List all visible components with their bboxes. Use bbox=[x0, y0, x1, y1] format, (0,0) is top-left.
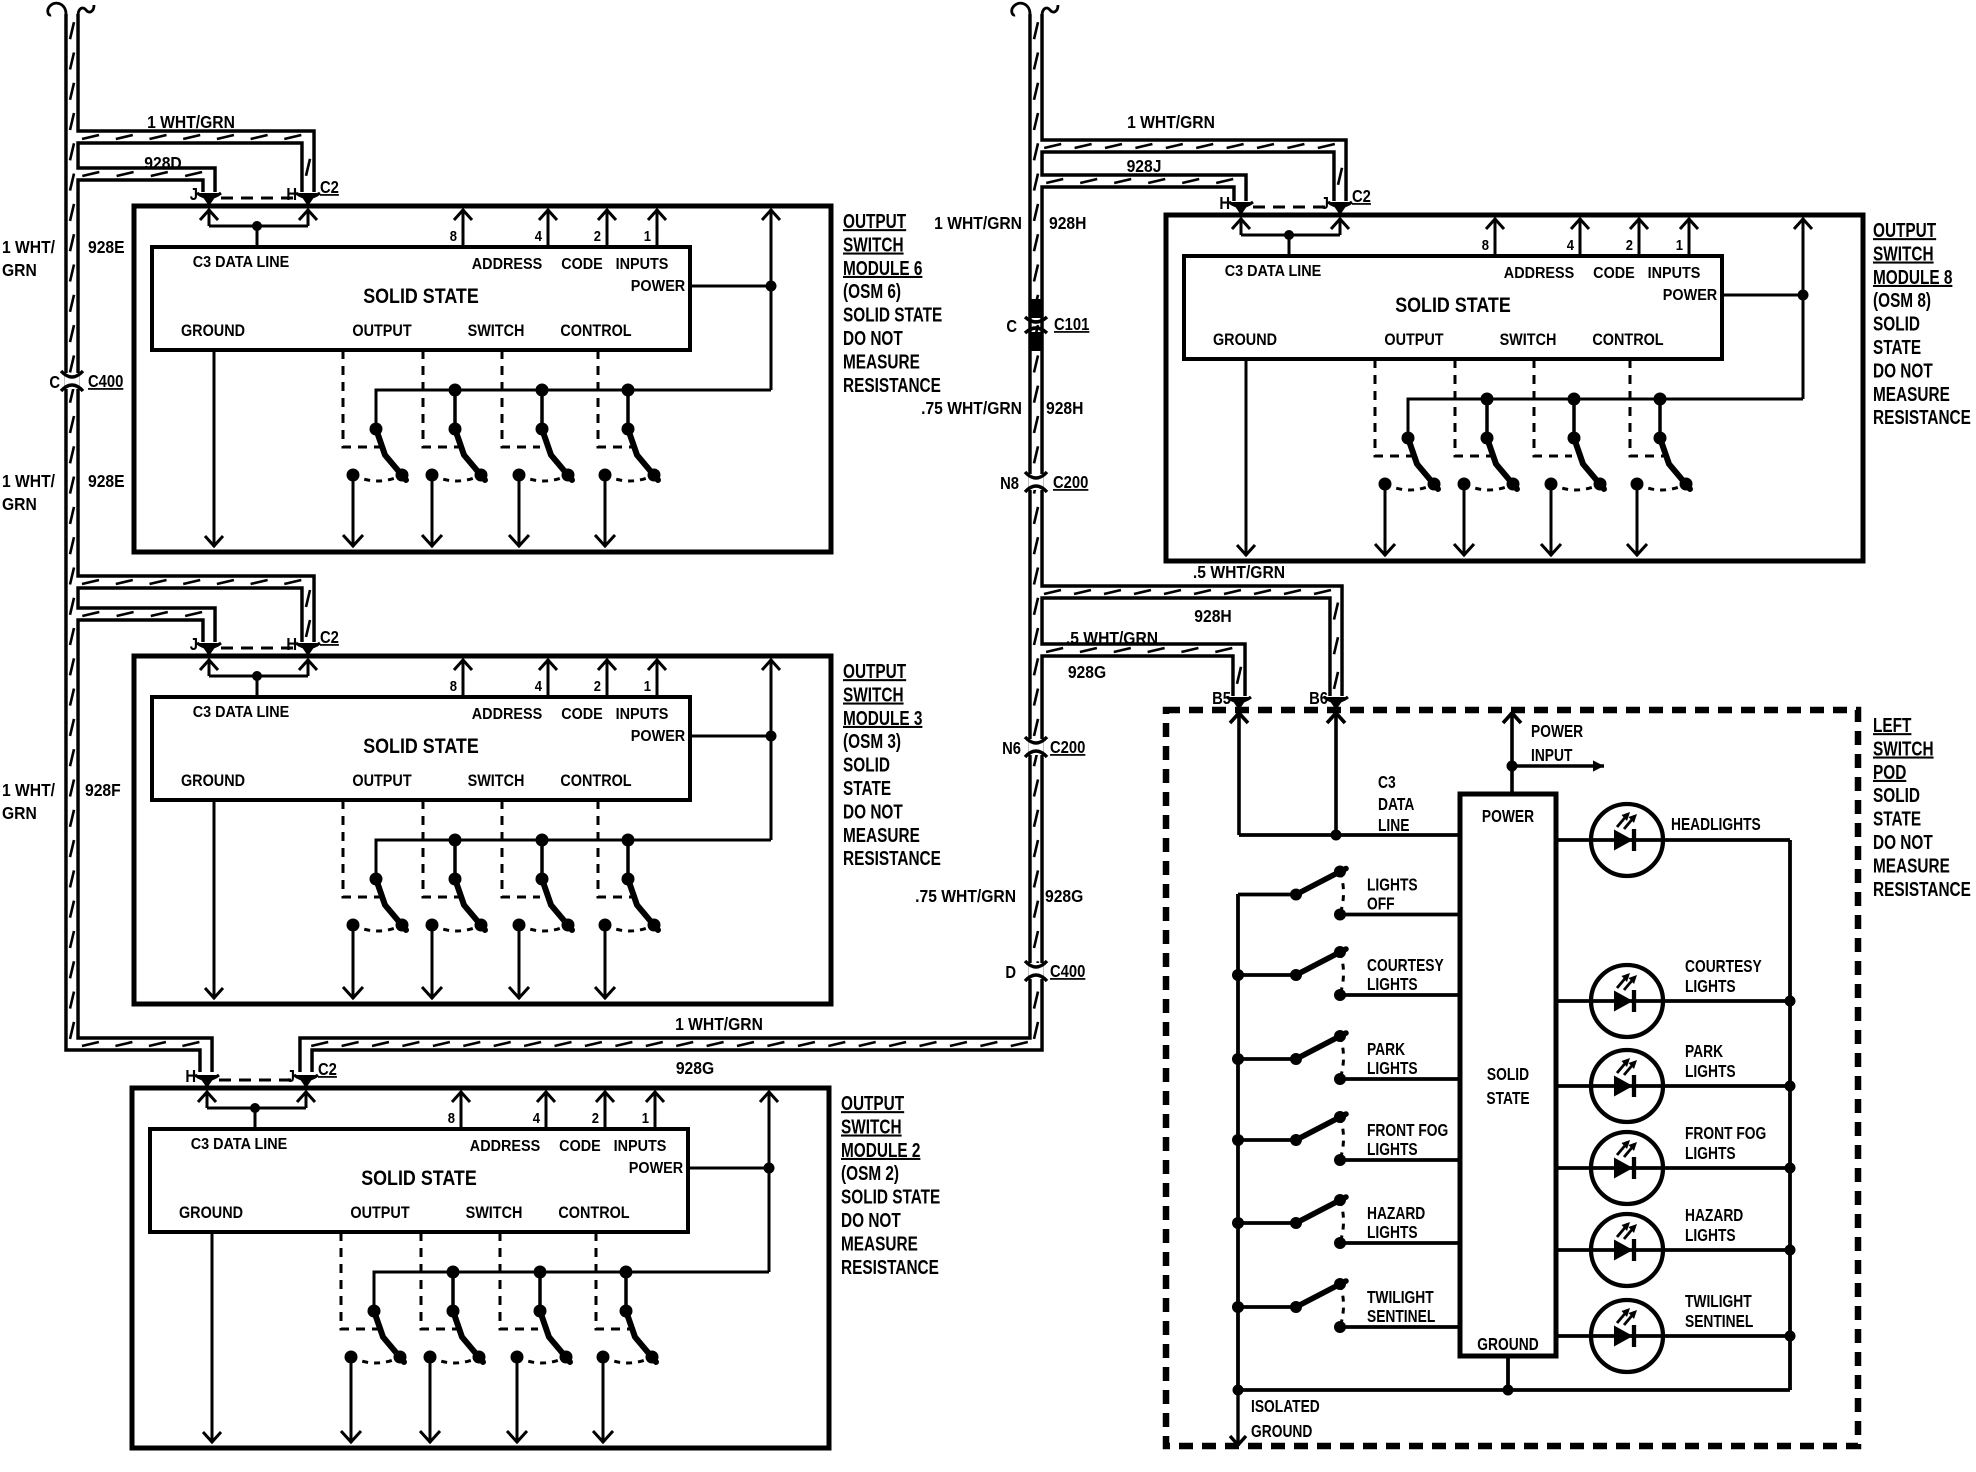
wire-continuation break at top of central bus bbox=[1012, 3, 1030, 22]
svg-text:(OSM 3): (OSM 3) bbox=[843, 730, 901, 753]
svg-text:SWITCH: SWITCH bbox=[466, 1204, 523, 1222]
pod connector B6 terminal bbox=[1327, 697, 1345, 710]
svg-text:LIGHTS: LIGHTS bbox=[1367, 1224, 1418, 1243]
pod power input net bbox=[1510, 712, 1514, 794]
pod switch FRONT FOG LIGHTS bbox=[1232, 1111, 1460, 1166]
svg-text:DO NOT: DO NOT bbox=[1873, 359, 1933, 382]
svg-text:1: 1 bbox=[644, 228, 652, 244]
module OSM2 dashed control linkages bbox=[341, 1232, 379, 1329]
svg-text:LIGHTS: LIGHTS bbox=[1367, 876, 1418, 895]
svg-text:COURTESY: COURTESY bbox=[1685, 958, 1762, 977]
svg-text:SENTINEL: SENTINEL bbox=[1367, 1308, 1436, 1327]
svg-text:SWITCH: SWITCH bbox=[841, 1115, 902, 1138]
svg-text:CONTROL: CONTROL bbox=[560, 322, 631, 340]
module OSM2 outer box bbox=[132, 1088, 829, 1448]
svg-text:INPUTS: INPUTS bbox=[1648, 264, 1701, 282]
svg-text:FRONT FOG: FRONT FOG bbox=[1685, 1125, 1766, 1144]
svg-text:PARK: PARK bbox=[1685, 1043, 1724, 1062]
svg-text:TWILIGHT: TWILIGHT bbox=[1685, 1293, 1752, 1312]
svg-text:MODULE 3: MODULE 3 bbox=[843, 707, 922, 730]
module OSM3 dashed control linkages bbox=[343, 800, 381, 897]
svg-text:INPUT: INPUT bbox=[1531, 747, 1573, 766]
module OSM8 address/code input arrows 8 4 2 1 bbox=[1494, 218, 1497, 256]
svg-text:2: 2 bbox=[592, 1110, 600, 1126]
svg-text:N6: N6 bbox=[1002, 739, 1021, 758]
svg-text:LIGHTS: LIGHTS bbox=[1367, 1141, 1418, 1160]
svg-text:CODE: CODE bbox=[561, 255, 603, 273]
svg-text:RESISTANCE: RESISTANCE bbox=[843, 374, 941, 397]
pod indicator LED HEADLIGHTS bbox=[1556, 804, 1790, 876]
svg-text:C3 DATA LINE: C3 DATA LINE bbox=[193, 253, 290, 271]
svg-text:.75 WHT/GRN: .75 WHT/GRN bbox=[921, 398, 1022, 418]
module OSM2 inner labels bbox=[179, 1135, 683, 1222]
module OSM8 connector C2 terminals bbox=[1219, 187, 1371, 215]
svg-text:C: C bbox=[49, 373, 60, 392]
svg-text:1 WHT/: 1 WHT/ bbox=[2, 780, 55, 800]
wire .5 WHT/GRN 928G to pod connector B5 bbox=[1036, 650, 1239, 696]
svg-text:1 WHT/GRN: 1 WHT/GRN bbox=[1127, 112, 1215, 132]
svg-text:C400: C400 bbox=[88, 372, 123, 391]
svg-text:HEADLIGHTS: HEADLIGHTS bbox=[1671, 816, 1761, 835]
svg-text:SOLID STATE: SOLID STATE bbox=[361, 1167, 477, 1191]
svg-text:928E: 928E bbox=[88, 237, 125, 257]
svg-text:OUTPUT: OUTPUT bbox=[1873, 219, 1936, 242]
svg-text:SOLID STATE: SOLID STATE bbox=[363, 735, 479, 759]
svg-text:SOLID: SOLID bbox=[1873, 784, 1920, 807]
module OSM3 C3 data-line bracket bbox=[208, 659, 211, 676]
svg-text:INPUTS: INPUTS bbox=[616, 255, 669, 273]
svg-text:STATE: STATE bbox=[843, 777, 891, 800]
module OSM2 ground lead bbox=[211, 1232, 214, 1443]
module OSM3 outer box bbox=[134, 656, 831, 1004]
module OSM8 output switch 4 bbox=[1627, 393, 1693, 557]
module OSM3 ground lead bbox=[213, 800, 216, 999]
module OSM6 ground lead bbox=[213, 350, 216, 547]
svg-text:1 WHT/GRN: 1 WHT/GRN bbox=[147, 112, 235, 132]
pod indicator LED HAZARD LIGHTS bbox=[1556, 1207, 1796, 1286]
svg-text:2: 2 bbox=[594, 678, 602, 694]
wire-continuation break at top of left bus bbox=[48, 3, 66, 22]
svg-text:ADDRESS: ADDRESS bbox=[472, 255, 542, 273]
connector C200 (N6) on central bus bbox=[1029, 739, 1044, 755]
svg-text:8: 8 bbox=[1482, 237, 1490, 253]
module OSM6 output switch 3 bbox=[509, 384, 575, 548]
svg-text:928E: 928E bbox=[88, 471, 125, 491]
module OSM6 C3 data-line bracket bbox=[208, 209, 211, 226]
svg-text:CONTROL: CONTROL bbox=[1592, 331, 1663, 349]
wire .5 WHT/GRN 928H to pod connector B6 hatch marks bbox=[1044, 590, 1338, 689]
svg-text:C101: C101 bbox=[1054, 315, 1089, 334]
pod connector B5 terminal bbox=[1230, 697, 1248, 710]
module OSM3 connector C2 terminals bbox=[190, 628, 339, 656]
svg-text:MEASURE: MEASURE bbox=[1873, 383, 1950, 406]
svg-text:1: 1 bbox=[644, 678, 652, 694]
pod switch HAZARD LIGHTS bbox=[1232, 1194, 1460, 1249]
svg-text:4: 4 bbox=[1567, 237, 1575, 253]
svg-text:MODULE 2: MODULE 2 bbox=[841, 1139, 920, 1162]
svg-text:SWITCH: SWITCH bbox=[843, 683, 904, 706]
module OSM2 connector C2 terminals bbox=[185, 1060, 337, 1088]
svg-text:928G: 928G bbox=[676, 1058, 714, 1078]
module OSM8 inner labels bbox=[1213, 262, 1717, 349]
module OSM6 outer box bbox=[134, 206, 831, 552]
module OSM2 output switch 4 bbox=[593, 1266, 659, 1444]
svg-text:1 WHT/: 1 WHT/ bbox=[2, 471, 55, 491]
module OSM8 output switch 2 bbox=[1454, 393, 1520, 557]
svg-text:GRN: GRN bbox=[2, 494, 37, 514]
module OSM3 solid-state inner box bbox=[152, 697, 690, 800]
svg-text:LIGHTS: LIGHTS bbox=[1367, 1060, 1418, 1079]
svg-text:POWER: POWER bbox=[1531, 723, 1584, 742]
module OSM3 address/code input arrows 8 4 2 1 bbox=[462, 659, 465, 697]
svg-text:GROUND: GROUND bbox=[181, 772, 245, 790]
svg-text:928G: 928G bbox=[1068, 662, 1106, 682]
module OSM6 power net bbox=[690, 285, 771, 288]
wire .5 WHT/GRN 928H to pod connector B6 bbox=[1036, 592, 1336, 696]
svg-text:SWITCH: SWITCH bbox=[843, 233, 904, 256]
svg-text:DO NOT: DO NOT bbox=[843, 327, 903, 350]
svg-text:(OSM 8): (OSM 8) bbox=[1873, 289, 1931, 312]
svg-text:GRN: GRN bbox=[2, 803, 37, 823]
module OSM8 side label bbox=[1873, 219, 1971, 429]
connector C200 (N8) on central bus bbox=[1029, 474, 1044, 490]
svg-text:SOLID STATE: SOLID STATE bbox=[1395, 294, 1511, 318]
svg-text:HAZARD: HAZARD bbox=[1685, 1207, 1743, 1226]
svg-text:POWER: POWER bbox=[1663, 286, 1717, 304]
svg-text:H: H bbox=[1219, 194, 1230, 213]
svg-text:1 WHT/: 1 WHT/ bbox=[2, 237, 55, 257]
svg-text:C2: C2 bbox=[320, 178, 339, 197]
svg-text:ADDRESS: ADDRESS bbox=[472, 705, 542, 723]
svg-text:1: 1 bbox=[642, 1110, 650, 1126]
wire 1 WHT/GRN to OSM6 connector H bbox=[72, 137, 308, 192]
svg-text:4: 4 bbox=[533, 1110, 541, 1126]
connector C400 (C) on left bus bbox=[65, 373, 80, 389]
svg-text:C2: C2 bbox=[318, 1060, 337, 1079]
svg-text:C200: C200 bbox=[1050, 738, 1085, 757]
svg-text:SWITCH: SWITCH bbox=[468, 322, 525, 340]
svg-text:C: C bbox=[1006, 317, 1017, 336]
svg-text:J: J bbox=[1321, 194, 1329, 213]
svg-text:OUTPUT: OUTPUT bbox=[350, 1204, 410, 1222]
svg-text:SWITCH: SWITCH bbox=[468, 772, 525, 790]
module OSM3 output switch 1 bbox=[343, 873, 409, 1000]
svg-text:928H: 928H bbox=[1194, 606, 1231, 626]
module OSM8 outer box bbox=[1166, 215, 1863, 561]
svg-text:SWITCH: SWITCH bbox=[1873, 242, 1934, 265]
svg-text:GROUND: GROUND bbox=[1477, 1336, 1538, 1355]
connector C101 (C) on central bus bbox=[1029, 299, 1043, 318]
module OSM3 switch power rail bbox=[376, 840, 771, 879]
svg-text:SOLID: SOLID bbox=[843, 753, 890, 776]
svg-text:GROUND: GROUND bbox=[179, 1204, 243, 1222]
svg-text:DO NOT: DO NOT bbox=[843, 800, 903, 823]
svg-text:D: D bbox=[1005, 963, 1016, 982]
svg-text:GROUND: GROUND bbox=[181, 322, 245, 340]
module OSM2 C3 data-line bracket bbox=[206, 1091, 209, 1108]
svg-text:1: 1 bbox=[1676, 237, 1684, 253]
svg-text:SENTINEL: SENTINEL bbox=[1685, 1313, 1754, 1332]
svg-text:STATE: STATE bbox=[1873, 336, 1921, 359]
svg-text:SOLID STATE: SOLID STATE bbox=[841, 1185, 940, 1208]
svg-text:(OSM 2): (OSM 2) bbox=[841, 1162, 899, 1185]
svg-text:8: 8 bbox=[448, 1110, 456, 1126]
wire 928E to OSM3 connector H bbox=[72, 582, 308, 642]
pod isolated-ground bus bbox=[1236, 894, 1240, 1390]
module OSM2 output switch 1 bbox=[341, 1305, 407, 1444]
svg-text:COURTESY: COURTESY bbox=[1367, 957, 1444, 976]
module OSM6 output switch 4 bbox=[595, 384, 661, 548]
module OSM6 side label bbox=[843, 210, 942, 396]
svg-text:POD: POD bbox=[1873, 761, 1906, 784]
module OSM6 output switch 1 bbox=[343, 423, 409, 548]
pod indicator LED FRONT FOG LIGHTS bbox=[1556, 1125, 1796, 1204]
module OSM8 power net bbox=[1722, 294, 1803, 297]
svg-text:H: H bbox=[185, 1067, 196, 1086]
wire 928J to OSM8 connector H bbox=[1036, 181, 1240, 201]
svg-text:OUTPUT: OUTPUT bbox=[1384, 331, 1444, 349]
svg-text:POWER: POWER bbox=[629, 1159, 683, 1177]
module OSM8 C3 data-line bracket bbox=[1240, 218, 1243, 235]
svg-text:GROUND: GROUND bbox=[1251, 1423, 1312, 1442]
svg-text:LIGHTS: LIGHTS bbox=[1367, 976, 1418, 995]
pod indicator LED PARK LIGHTS bbox=[1556, 1043, 1796, 1122]
module OSM3 inner labels bbox=[181, 703, 685, 790]
svg-text:2: 2 bbox=[594, 228, 602, 244]
svg-text:LIGHTS: LIGHTS bbox=[1685, 1063, 1736, 1082]
svg-text:C3 DATA LINE: C3 DATA LINE bbox=[191, 1135, 288, 1153]
module OSM2 output switch 2 bbox=[420, 1266, 486, 1444]
svg-text:928G: 928G bbox=[1045, 886, 1083, 906]
svg-text:J: J bbox=[190, 185, 198, 204]
svg-text:N8: N8 bbox=[1000, 474, 1019, 493]
svg-text:4: 4 bbox=[535, 228, 543, 244]
wire 1 WHT/GRN to OSM6 connector H hatch marks bbox=[82, 135, 310, 176]
svg-text:SWITCH: SWITCH bbox=[1873, 737, 1934, 760]
svg-text:(OSM 6): (OSM 6) bbox=[843, 280, 901, 303]
module OSM6 switch power rail bbox=[376, 390, 771, 429]
svg-text:RESISTANCE: RESISTANCE bbox=[1873, 406, 1971, 429]
module OSM6 dashed control linkages bbox=[343, 350, 381, 447]
module OSM2 switch power rail bbox=[374, 1272, 769, 1311]
module OSM2 power net bbox=[688, 1167, 769, 1170]
svg-text:CODE: CODE bbox=[1593, 264, 1635, 282]
svg-text:STATE: STATE bbox=[1873, 807, 1921, 830]
svg-text:SOLID STATE: SOLID STATE bbox=[363, 285, 479, 309]
svg-text:928D: 928D bbox=[144, 153, 181, 173]
module OSM8 switch power rail bbox=[1408, 399, 1803, 438]
wire left feed bus 928E/928F to OSM2 connector H bbox=[72, 14, 206, 1072]
svg-text:4: 4 bbox=[535, 678, 543, 694]
svg-text:928J: 928J bbox=[1127, 156, 1162, 176]
svg-text:OUTPUT: OUTPUT bbox=[352, 322, 412, 340]
svg-text:RESISTANCE: RESISTANCE bbox=[1873, 878, 1971, 901]
svg-text:CONTROL: CONTROL bbox=[558, 1204, 629, 1222]
module OSM2 solid-state inner box bbox=[150, 1129, 688, 1232]
svg-text:MEASURE: MEASURE bbox=[841, 1232, 918, 1255]
wire 1 WHT/GRN to OSM8 connector J hatch marks bbox=[1044, 144, 1342, 185]
connector C400 (D) on central bus bbox=[1029, 963, 1044, 979]
svg-text:SOLID STATE: SOLID STATE bbox=[843, 303, 942, 326]
svg-text:B6: B6 bbox=[1309, 689, 1328, 708]
wire 928D to OSM6 connector J bbox=[72, 174, 209, 192]
svg-text:H: H bbox=[286, 185, 297, 204]
svg-text:RESISTANCE: RESISTANCE bbox=[841, 1256, 939, 1279]
svg-text:HAZARD: HAZARD bbox=[1367, 1205, 1425, 1224]
module OSM8 ground lead bbox=[1245, 359, 1248, 556]
wire 928F to OSM3 connector J bbox=[72, 614, 209, 642]
pod switch TWILIGHT SENTINEL bbox=[1232, 1278, 1460, 1333]
svg-text:B5: B5 bbox=[1212, 689, 1231, 708]
wire 928E to OSM3 connector H hatch marks bbox=[82, 580, 310, 637]
module OSM8 output switch 1 bbox=[1375, 432, 1441, 557]
module OSM3 power net bbox=[690, 735, 771, 738]
svg-text:CODE: CODE bbox=[559, 1137, 601, 1155]
svg-text:ISOLATED: ISOLATED bbox=[1251, 1398, 1320, 1417]
module OSM3 output switch 3 bbox=[509, 834, 575, 1000]
module OSM8 solid-state inner box bbox=[1184, 256, 1722, 359]
wire 928J to OSM8 connector H hatch marks bbox=[1046, 179, 1233, 183]
module OSM6 inner labels bbox=[181, 253, 685, 340]
wire left feed bus 928E/928F to OSM2 connector H hatch marks bbox=[70, 22, 199, 1046]
svg-text:C2: C2 bbox=[320, 628, 339, 647]
wire 928F to OSM3 connector J hatch marks bbox=[82, 612, 202, 616]
svg-text:CODE: CODE bbox=[561, 705, 603, 723]
pod solid-state box bbox=[1460, 794, 1556, 1356]
svg-text:LIGHTS: LIGHTS bbox=[1685, 978, 1736, 997]
svg-text:PARK: PARK bbox=[1367, 1041, 1406, 1060]
svg-text:LEFT: LEFT bbox=[1873, 714, 1911, 737]
pod switch PARK LIGHTS bbox=[1232, 1030, 1460, 1085]
module OSM8 output switch 3 bbox=[1541, 393, 1607, 557]
svg-text:LINE: LINE bbox=[1378, 817, 1409, 836]
svg-text:MEASURE: MEASURE bbox=[843, 350, 920, 373]
svg-text:H: H bbox=[286, 635, 297, 654]
svg-text:CONTROL: CONTROL bbox=[560, 772, 631, 790]
module OSM6 connector C2 terminals bbox=[190, 178, 339, 206]
left switch pod dashed enclosure bbox=[1166, 710, 1858, 1446]
svg-text:SOLID: SOLID bbox=[1873, 312, 1920, 335]
svg-text:J: J bbox=[287, 1067, 295, 1086]
svg-text:C3: C3 bbox=[1378, 774, 1396, 793]
module OSM2 output switch 3 bbox=[507, 1266, 573, 1444]
pod indicator LED COURTESY LIGHTS bbox=[1556, 958, 1796, 1037]
svg-text:RESISTANCE: RESISTANCE bbox=[843, 847, 941, 870]
svg-text:STATE: STATE bbox=[1486, 1090, 1529, 1109]
svg-text:LIGHTS: LIGHTS bbox=[1685, 1145, 1736, 1164]
pod switch LIGHTS OFF bbox=[1238, 866, 1460, 921]
wire central bus 928H/928G to OSM2 connector J hatch marks bbox=[311, 22, 1038, 1046]
svg-text:C3 DATA LINE: C3 DATA LINE bbox=[193, 703, 290, 721]
svg-text:SOLID: SOLID bbox=[1487, 1066, 1529, 1085]
pod C3 data line net bbox=[1237, 712, 1241, 835]
svg-text:POWER: POWER bbox=[631, 277, 685, 295]
svg-text:8: 8 bbox=[450, 678, 458, 694]
svg-text:2: 2 bbox=[1626, 237, 1634, 253]
svg-text:MEASURE: MEASURE bbox=[843, 824, 920, 847]
svg-text:1 WHT/GRN: 1 WHT/GRN bbox=[934, 213, 1022, 233]
svg-text:OUTPUT: OUTPUT bbox=[841, 1092, 904, 1115]
svg-text:SWITCH: SWITCH bbox=[1500, 331, 1557, 349]
svg-text:928H: 928H bbox=[1046, 398, 1083, 418]
svg-text:928H: 928H bbox=[1049, 213, 1086, 233]
module OSM3 side label bbox=[843, 660, 941, 870]
module OSM2 side label bbox=[841, 1092, 940, 1278]
module OSM3 output switch 2 bbox=[422, 834, 488, 1000]
svg-text:C2: C2 bbox=[1352, 187, 1371, 206]
svg-text:MEASURE: MEASURE bbox=[1873, 854, 1950, 877]
svg-text:FRONT FOG: FRONT FOG bbox=[1367, 1122, 1448, 1141]
pod side label bbox=[1873, 714, 1971, 900]
svg-text:POWER: POWER bbox=[1482, 808, 1535, 827]
module OSM6 output switch 2 bbox=[422, 384, 488, 548]
svg-text:LIGHTS: LIGHTS bbox=[1685, 1227, 1736, 1246]
module OSM3 output switch 4 bbox=[595, 834, 661, 1000]
pod switch COURTESY LIGHTS bbox=[1232, 946, 1460, 1001]
svg-text:8: 8 bbox=[450, 228, 458, 244]
pod bottom ground bus bbox=[1238, 1388, 1790, 1392]
svg-text:DATA: DATA bbox=[1378, 796, 1414, 815]
svg-text:DO NOT: DO NOT bbox=[841, 1209, 901, 1232]
svg-text:928F: 928F bbox=[85, 780, 121, 800]
wire 928D to OSM6 connector J hatch marks bbox=[82, 172, 202, 176]
svg-text:J: J bbox=[190, 635, 198, 654]
wire .5 WHT/GRN 928G to pod connector B5 hatch marks bbox=[1046, 648, 1241, 684]
svg-text:1 WHT/GRN: 1 WHT/GRN bbox=[675, 1014, 763, 1034]
twisted-pair wire channel interiors bbox=[72, 14, 1340, 1072]
svg-text:OUTPUT: OUTPUT bbox=[843, 660, 906, 683]
svg-text:TWILIGHT: TWILIGHT bbox=[1367, 1289, 1434, 1308]
module OSM6 address/code input arrows 8 4 2 1 bbox=[462, 209, 465, 247]
svg-text:GROUND: GROUND bbox=[1213, 331, 1277, 349]
svg-text:INPUTS: INPUTS bbox=[616, 705, 669, 723]
pod indicator LED TWILIGHT SENTINEL bbox=[1556, 1293, 1796, 1372]
svg-text:INPUTS: INPUTS bbox=[614, 1137, 667, 1155]
svg-text:.75 WHT/GRN: .75 WHT/GRN bbox=[915, 886, 1016, 906]
svg-text:DO NOT: DO NOT bbox=[1873, 831, 1933, 854]
wire 1 WHT/GRN to OSM8 connector J bbox=[1036, 146, 1340, 201]
svg-text:ADDRESS: ADDRESS bbox=[470, 1137, 540, 1155]
svg-text:ADDRESS: ADDRESS bbox=[1504, 264, 1574, 282]
svg-text:OUTPUT: OUTPUT bbox=[352, 772, 412, 790]
svg-text:GRN: GRN bbox=[2, 260, 37, 280]
module OSM6 solid-state inner box bbox=[152, 247, 690, 350]
svg-text:C400: C400 bbox=[1050, 962, 1085, 981]
svg-text:POWER: POWER bbox=[631, 727, 685, 745]
svg-text:.5 WHT/GRN: .5 WHT/GRN bbox=[1066, 628, 1158, 648]
wire central bus 928H/928G to OSM2 connector J bbox=[306, 14, 1036, 1072]
svg-text:.5 WHT/GRN: .5 WHT/GRN bbox=[1193, 562, 1285, 582]
module OSM2 address/code input arrows 8 4 2 1 bbox=[460, 1091, 463, 1129]
svg-text:C3 DATA LINE: C3 DATA LINE bbox=[1225, 262, 1322, 280]
svg-text:MODULE 6: MODULE 6 bbox=[843, 257, 922, 280]
svg-text:MODULE 8: MODULE 8 bbox=[1873, 266, 1952, 289]
svg-text:OUTPUT: OUTPUT bbox=[843, 210, 906, 233]
svg-text:C200: C200 bbox=[1053, 473, 1088, 492]
pod right-side bus bbox=[1788, 840, 1792, 1390]
module OSM8 dashed control linkages bbox=[1375, 359, 1413, 456]
svg-text:OFF: OFF bbox=[1367, 895, 1395, 914]
